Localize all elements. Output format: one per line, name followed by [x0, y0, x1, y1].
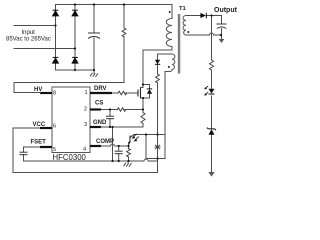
optocoupler LED [209, 89, 215, 94]
pin 5 stub FSET [40, 146, 52, 148]
optocoupler phototransistor [129, 135, 134, 147]
transformer T1 secondary winding [183, 16, 186, 36]
wire AC input line 2 [14, 48, 75, 50]
pin 6 stub VCC [40, 127, 52, 129]
svg-text:VCC: VCC [33, 122, 46, 128]
wire bottom bus [56, 69, 95, 71]
diode D1 bridge top-left [53, 10, 59, 16]
wire DRV gate line [112, 92, 118, 94]
svg-text:GND: GND [93, 120, 107, 126]
wire aux chain down [157, 83, 159, 161]
junction source node [142, 97, 144, 99]
diode D3 bridge bottom-left [53, 57, 59, 63]
wire AC input line 1 [14, 25, 56, 27]
svg-text:Input: Input [22, 30, 36, 36]
junction output / feedback [210, 14, 212, 16]
wire mosfet source lead [141, 98, 144, 110]
diode D4 bridge bottom-right [72, 57, 78, 63]
junction top bus / startup resistor [123, 3, 125, 5]
junction VCC node / aux chain [156, 133, 158, 135]
capacitor C3 CS filter [106, 116, 114, 119]
body diode of Q1 [147, 89, 152, 94]
wire primary bottom to MOSFET drain [143, 47, 172, 88]
component X1 (star mark) [155, 145, 161, 149]
wire secondary return with hop [186, 33, 221, 35]
capacitor C1 bulk electrolytic [88, 33, 100, 39]
transistor Q1 MOSFET [138, 88, 141, 99]
pin 1 stub DRV [90, 92, 112, 94]
secondary polarity dot [187, 31, 189, 33]
wire bridge branch 2 [74, 5, 76, 71]
wire startup resistor branch [123, 5, 125, 29]
wire body diode bottom [143, 94, 150, 98]
junction GND rail / COMP resistor [127, 160, 129, 162]
wire feedback rail between led and zener [211, 96, 213, 129]
wire bridge branch 1 [55, 5, 57, 71]
primary polarity dot [169, 11, 171, 13]
wire secondary top to diode [186, 15, 200, 17]
junction bottom bus / cap-ground [93, 69, 95, 71]
wire VCC node horizontal [134, 134, 165, 136]
wire FSET branch [24, 147, 53, 152]
svg-text:COMP: COMP [96, 139, 114, 145]
svg-text:FSET: FSET [31, 140, 47, 146]
svg-text:6: 6 [53, 124, 56, 130]
junction AC line 2 / branch2 [74, 47, 76, 49]
resistor R2 feedback upper [210, 60, 214, 70]
wire aux diode to resistor [157, 64, 159, 74]
svg-text:DRV: DRV [94, 86, 107, 92]
junction GND line / drop [111, 126, 113, 128]
resistor R4 CS (horizontal zigzag) [117, 108, 125, 112]
pin 8 stub HV [40, 92, 52, 94]
junction GND line / cap [109, 126, 111, 128]
wire VCC pin wire [13, 128, 52, 173]
junction CS / sense node [142, 108, 144, 110]
wire bulk cap branch [93, 5, 95, 34]
wire COMP resistor leads [128, 146, 130, 149]
ground primary (bridge) [90, 73, 98, 77]
junction GND rail / drop [111, 160, 113, 162]
resistor R5 sense (vertical) [141, 113, 145, 124]
wire GND rail with hop [24, 159, 158, 161]
aux polarity dot [168, 66, 170, 68]
wire feedback rail upper [211, 16, 213, 61]
optocoupler LED arrows [204, 86, 208, 95]
wire aux chain top [158, 54, 173, 60]
wire ground2 stub [127, 161, 129, 163]
transformer core [177, 14, 179, 74]
IC U1 HFC0300 body [52, 87, 90, 153]
wire COMP cap leads [118, 146, 120, 151]
junction H1 / aux chain [156, 157, 158, 159]
wire aux chain to VCC rail [13, 161, 158, 173]
wire GND drop to rail [112, 127, 114, 161]
wire mosfet drain lead [141, 87, 144, 89]
svg-text:Output: Output [214, 7, 238, 14]
svg-text:8: 8 [53, 91, 56, 97]
svg-text:CS: CS [95, 101, 103, 107]
wire feedback rail bottom [211, 135, 213, 173]
wire feedback rail mid [211, 70, 213, 88]
opto incoming light arrows [132, 134, 139, 142]
wire output return arrow stub [221, 35, 223, 40]
capacitor C4 COMP [115, 151, 123, 154]
transformer T1 aux winding [165, 54, 175, 72]
svg-text:T1: T1 [179, 6, 187, 12]
ground secondary (GND rail) [124, 163, 132, 167]
junction CS / filter cap [109, 108, 111, 110]
svg-text:3: 3 [84, 122, 87, 128]
junction top bus / bulk cap [93, 3, 95, 5]
wire COMP line with hop [101, 144, 129, 146]
junction drain node [142, 83, 144, 85]
zener diode ZD1 [207, 128, 216, 135]
wire CS line [101, 109, 117, 111]
junction top bus / branch2 [74, 3, 76, 5]
pin 4 stub COMP [90, 145, 101, 147]
junction COMP / cap [118, 145, 120, 147]
svg-text:4: 4 [83, 147, 86, 153]
svg-text:HFC0300: HFC0300 [53, 153, 87, 162]
wire top DC bus [56, 5, 173, 19]
wire HV thin lead [14, 92, 41, 94]
secondary ground arrow [208, 172, 214, 177]
wire diode to output [207, 15, 222, 17]
junction AC line 1 / branch1 [54, 24, 56, 26]
wire ground stub [93, 70, 95, 73]
wire drain node to body diode [143, 85, 150, 89]
transformer T1 primary winding [166, 19, 172, 47]
capacitor C2 output electrolytic [217, 24, 227, 29]
wire aux return vertical [164, 72, 166, 159]
resistor R1 startup (vertical zigzag) [122, 28, 126, 37]
junction VCC node / V1 [145, 133, 147, 135]
output return arrow [219, 39, 225, 43]
junction COMP / resistor / emitter [127, 145, 129, 147]
pin 2 stub CS [90, 108, 101, 110]
pin 3 stub GND [90, 126, 101, 128]
resistor R7 aux (vertical) [156, 74, 160, 83]
junction bottom bus / branch2 [74, 69, 76, 71]
capacitor C5 FSET [20, 152, 28, 155]
junction return / output cap [220, 34, 222, 36]
diode D6 aux rectifier [155, 60, 160, 65]
svg-text:2: 2 [84, 107, 87, 113]
svg-text:1: 1 [85, 90, 88, 96]
diode D2 bridge top-right [72, 10, 78, 16]
wire sense resistor leads [142, 110, 144, 113]
diode D5 output rectifier [200, 13, 206, 19]
resistor R3 gate (DRV) [118, 91, 126, 95]
resistor R6 COMP (vertical) [127, 149, 131, 157]
junction GND rail / COMP cap [118, 160, 120, 162]
wire V1 drop [146, 135, 165, 159]
svg-text:85Vac to 265Vac: 85Vac to 265Vac [6, 36, 51, 42]
wire CS filter cap leads [109, 110, 111, 117]
wire output cap leads [221, 16, 223, 25]
svg-text:HV: HV [34, 87, 42, 93]
